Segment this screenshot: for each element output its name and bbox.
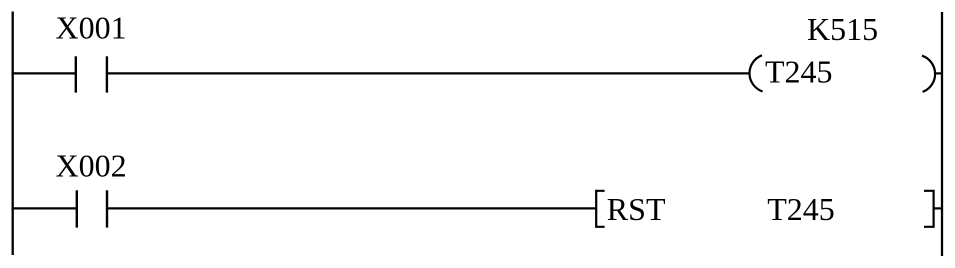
- contact X001: [76, 56, 107, 92]
- svg-text:X002: X002: [56, 147, 127, 183]
- wire bracket to right rail: [934, 207, 942, 209]
- contact X002: [77, 190, 107, 227]
- svg-text:K515: K515: [807, 11, 878, 47]
- wire rung1 left segment: [12, 72, 76, 74]
- svg-text:T245: T245: [765, 54, 833, 90]
- wire rung1 middle segment: [107, 72, 750, 74]
- svg-text:X001: X001: [56, 9, 127, 45]
- coil T245 right parenthesis: [922, 56, 935, 92]
- coil T245 left parenthesis: [749, 55, 762, 91]
- wire rung2 left segment: [12, 207, 77, 209]
- wire coil to right rail: [936, 72, 942, 74]
- svg-text:T245: T245: [767, 191, 835, 227]
- RST instruction right bracket: [924, 191, 934, 227]
- svg-text:RST: RST: [607, 191, 666, 227]
- right power rail: [941, 12, 943, 256]
- wire rung2 middle segment: [107, 207, 596, 209]
- RST instruction left bracket: [596, 191, 604, 227]
- left power rail: [12, 12, 14, 256]
